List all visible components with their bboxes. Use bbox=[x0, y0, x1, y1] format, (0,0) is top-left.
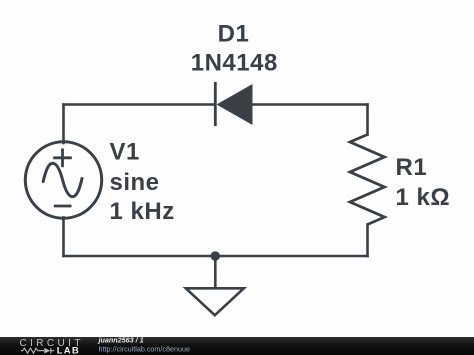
svg-text:http://circuitlab.com/c8enuue: http://circuitlab.com/c8enuue bbox=[99, 344, 191, 353]
svg-text:D1: D1 bbox=[218, 20, 250, 47]
svg-text:sine: sine bbox=[110, 169, 160, 196]
node junction dot bbox=[211, 251, 220, 260]
logo resistor zigzag bbox=[21, 348, 44, 353]
wire bottom rail bbox=[64, 255, 368, 258]
svg-text:juann2563 / 1: juann2563 / 1 bbox=[98, 337, 144, 344]
ground triangle bbox=[186, 288, 244, 315]
svg-text:LAB: LAB bbox=[57, 346, 80, 355]
svg-text:R1: R1 bbox=[396, 154, 428, 181]
svg-text:1 kΩ: 1 kΩ bbox=[396, 184, 451, 211]
V1 plus sign bbox=[53, 148, 72, 167]
wire left upper (top rail down to V1) bbox=[62, 105, 65, 144]
V1 minus sign bbox=[54, 205, 72, 208]
wire top-left (V1 top to diode anode) bbox=[64, 103, 215, 106]
svg-text:1 kHz: 1 kHz bbox=[110, 198, 175, 225]
ground stub wire bbox=[214, 256, 217, 287]
diode D1 triangle bbox=[217, 84, 253, 125]
diode D1 cathode bar bbox=[214, 82, 217, 126]
svg-text:1N4148: 1N4148 bbox=[191, 50, 278, 77]
wire left lower (V1 down to bottom rail) bbox=[62, 218, 65, 257]
V1 sine wave bbox=[43, 163, 82, 196]
logo diode bbox=[44, 348, 50, 354]
wire top-right (diode cathode to R1 top) bbox=[252, 103, 368, 106]
voltage source V1 circle bbox=[25, 142, 101, 218]
wire right lower (R1 down to bottom rail) bbox=[366, 225, 369, 257]
wire right upper (top rail down to R1) bbox=[366, 105, 369, 135]
svg-text:V1: V1 bbox=[110, 138, 140, 165]
footer bar bbox=[0, 337, 474, 355]
resistor R1 zigzag bbox=[350, 135, 385, 225]
